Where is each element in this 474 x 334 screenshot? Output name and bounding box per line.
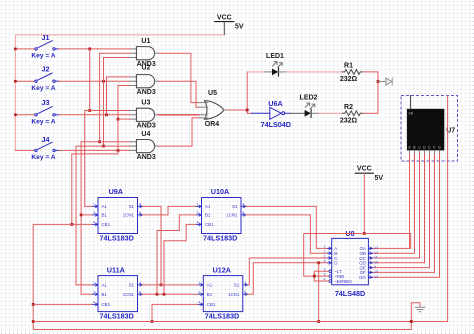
wire U1 output to OR input1 [158,53,199,102]
svg-text:Key = A: Key = A [31,118,55,125]
svg-text:S1: S1 [129,283,135,288]
wire LT BI tie [314,271,329,281]
LED1 [265,53,287,76]
wire U11A S1 to U12A A1 [142,284,198,286]
svg-text:74LS183D: 74LS183D [205,312,239,321]
svg-text:4: 4 [197,221,199,225]
svg-text:OG: OG [359,275,366,280]
svg-text:U12A: U12A [213,265,231,274]
adder U9A 74LS183D [93,187,143,242]
svg-text:4: 4 [244,281,246,285]
wire U4 input2 row / riser to U11A A1 [76,145,131,147]
svg-text:B1: B1 [102,292,108,297]
svg-text:VCC: VCC [217,14,232,21]
wire left bus to J2 [15,80,34,82]
wire U1 input2 feed [100,53,131,142]
svg-text:B1: B1 [207,292,213,297]
wire D net down to bus1 [318,263,320,322]
wire U7 pin B to U8 OB [414,150,416,153]
AND gate U2 AND3 [131,65,159,97]
svg-text:A1: A1 [102,283,108,288]
inverter U6A 74LS04D [252,99,291,129]
wire J3 row to U3 input2 [59,114,131,116]
wire U7 pin C to U8 OC [419,150,421,153]
wire U12A S1 to U8 C [247,258,327,285]
wire branch to U6A input [247,112,251,114]
wire ground bus1 [33,96,447,322]
svg-text:1CN1: 1CN1 [226,213,238,218]
wire bus J1 down to U3 input1 [89,49,91,111]
switch J2 Key = A [31,64,58,91]
svg-text:1CN1: 1CN1 [228,292,240,297]
svg-text:4: 4 [139,281,141,285]
svg-text:4: 4 [242,203,244,207]
svg-text:~BI/RBO: ~BI/RBO [334,279,352,284]
svg-text:AND3: AND3 [137,89,156,96]
svg-text:CB1: CB1 [102,302,111,307]
svg-text:4: 4 [93,221,95,225]
wire left bus to J1 [15,48,34,50]
svg-text:U5: U5 [208,90,217,97]
wire LED1 to R1 [286,71,342,73]
wire U10A S1 to U8 A [246,206,327,248]
wire U2 output to OR input2 [158,81,199,107]
svg-text:LED1: LED1 [266,53,284,60]
svg-text:Key = A: Key = A [31,53,55,60]
ground symbol [415,307,426,311]
svg-text:74LS183D: 74LS183D [100,234,134,243]
adder U11A 74LS183D [93,265,143,320]
wire ground bus2 to ground [33,303,420,330]
svg-text:U10A: U10A [211,187,229,196]
switch J1 Key = A [31,33,58,59]
svg-text:OR4: OR4 [205,121,220,128]
wire left bus to J3 [15,114,34,116]
wire pull-up to RBI [304,234,329,277]
wire U7 CA pin [410,96,412,109]
svg-text:232Ω: 232Ω [340,117,358,124]
svg-text:A1: A1 [205,204,211,209]
svg-text:CB1: CB1 [207,302,216,307]
AND gate U4 AND3 [131,131,159,161]
svg-text:R2: R2 [344,104,353,111]
svg-text:4: 4 [139,203,141,207]
adder U12A 74LS183D [198,265,248,320]
svg-text:1: 1 [197,203,199,207]
wire ground net to U9A CBI [33,224,92,329]
svg-text:9: 9 [374,265,376,269]
U7 display body [407,109,444,151]
svg-text:5: 5 [139,211,141,215]
svg-text:1CN1: 1CN1 [123,213,135,218]
svg-text:CB1: CB1 [102,222,111,227]
wire U2 input1 feed from J3 [107,77,131,115]
svg-text:J4: J4 [42,135,50,144]
wire U1 input3 feed from J2 down to U4 input2 [104,58,131,147]
svg-text:U4: U4 [141,131,150,138]
wire J1 row to U1 input1 [59,48,131,50]
wire J2 row to U2 input2 [59,80,131,82]
wire U7 pin F to U8 OF [434,150,436,153]
wire VCC2 down to pull-up net [363,173,365,233]
svg-text:B1: B1 [102,213,108,218]
svg-text:U11A: U11A [107,265,125,274]
svg-text:1: 1 [93,203,95,207]
wire J4 row to U4 input3 [59,149,131,151]
svg-text:3: 3 [93,211,95,215]
wire U9A S1 down to U12A A1 net [142,206,161,285]
svg-text:LED2: LED2 [300,95,318,102]
wire left bus to J4 [15,149,34,151]
wire riser to U10A B1 [157,215,196,294]
svg-text:AND3: AND3 [137,123,156,130]
svg-text:A1: A1 [102,204,108,209]
wire LED2 to R2 [319,112,342,114]
digital ground arrow symbol [378,78,392,85]
wire U7 pin E to U8 OE [429,150,431,153]
wire R1 to junction [363,72,378,113]
svg-text:F: F [434,146,436,150]
svg-text:74LS48D: 74LS48D [335,289,365,298]
svg-text:S1: S1 [129,204,135,209]
wire U11A 1CN1 to U12A B1 [142,293,198,295]
svg-text:U1: U1 [141,38,150,45]
svg-text:5V: 5V [235,24,244,31]
svg-text:Key = A: Key = A [31,85,55,92]
wire ground net to U11A CBI [33,303,92,305]
svg-text:4: 4 [93,301,95,305]
svg-text:U2: U2 [141,65,150,72]
junction left bus J1 [14,48,17,51]
junction left bus J2 [14,80,17,83]
svg-text:U9A: U9A [109,187,123,196]
wire riser to U10A CBI [164,224,196,294]
svg-text:E: E [428,146,430,150]
svg-text:14: 14 [374,275,378,279]
AND gate U3 AND3 [131,100,159,130]
wire U6A to LED2 [291,112,305,114]
wire U3 input1 row / riser to U9A A1 [85,110,131,112]
svg-text:4: 4 [198,301,200,305]
svg-text:J3: J3 [42,98,50,107]
IC U8 74LS48D [324,229,379,298]
adder U10A 74LS183D [196,187,246,242]
seven segment display U7 boundary [401,96,458,162]
svg-text:74LS183D: 74LS183D [203,234,237,243]
junction left bus J3 [14,114,17,117]
svg-text:VCC: VCC [357,166,372,173]
power VCC1 5V symbol [215,14,244,35]
svg-text:S1: S1 [232,204,238,209]
wire OR output to LED1/U6A branch [228,109,247,111]
wire branch vertical [246,72,248,113]
wire U9A 1CN1 to U10A A1 [142,206,196,215]
wire U12A 1CN1 to U8 D [247,263,327,294]
svg-text:10: 10 [374,260,378,264]
wire U7 pin A to U8 OA [409,150,411,153]
svg-text:B1: B1 [205,213,211,218]
wire U10A 1CN1 to U8 B [246,215,327,253]
svg-text:5: 5 [242,211,244,215]
switch J4 Key = A [31,135,58,161]
svg-text:11: 11 [374,256,378,260]
wire U4 output to OR input4 [158,118,199,146]
svg-text:Key = A: Key = A [31,154,55,161]
resistor R1 232ohm [340,63,363,83]
svg-text:1: 1 [93,281,95,285]
wire bus1 riser to U12A CBI [152,304,198,321]
wire pull-up right drop to OA net [410,234,412,249]
wire U2 input3 feed down to U3 input3 and J4 [72,86,131,225]
svg-text:U6A: U6A [268,99,282,108]
svg-text:CB1: CB1 [205,222,214,227]
svg-text:12: 12 [374,251,378,255]
svg-text:5V: 5V [375,175,384,182]
svg-text:U3: U3 [141,100,150,107]
svg-text:D: D [334,261,337,266]
svg-text:13: 13 [374,246,378,250]
svg-text:J1: J1 [42,33,50,42]
svg-text:3: 3 [197,211,199,215]
svg-text:J2: J2 [42,64,50,73]
resistor R2 232ohm [340,104,363,125]
wire U3 input3 row [118,118,131,120]
wire U3 output to OR input3 [158,114,199,116]
svg-text:S1: S1 [234,283,240,288]
wire R2 to junction vertical [363,112,378,114]
svg-text:A1: A1 [207,283,213,288]
svg-text:74LS04D: 74LS04D [261,120,291,129]
LED2 [300,95,319,118]
svg-text:R1: R1 [344,63,353,70]
svg-text:AND3: AND3 [137,154,156,161]
OR gate U5 OR4 [199,90,228,128]
wire to LED1 [247,71,264,73]
AND gate U1 AND3 [131,38,159,68]
svg-text:232Ω: 232Ω [340,76,358,83]
wire pull-up net horizontal [304,233,411,235]
svg-text:1: 1 [198,281,200,285]
svg-text:74LS183D: 74LS183D [100,312,134,321]
svg-text:3: 3 [198,290,200,294]
svg-text:1CN1: 1CN1 [123,292,135,297]
wire U7 pin D to U8 OD [424,150,426,153]
svg-text:B: B [413,146,415,150]
switch J3 Key = A [31,98,58,125]
svg-text:5: 5 [244,290,246,294]
wire U4 input1 row / riser to U9A B1 and U11A B1 [81,141,131,143]
power VCC2 5V symbol [355,166,383,183]
svg-text:3: 3 [93,290,95,294]
wire U7 pin G to U8 OG [439,150,441,153]
svg-text:5: 5 [139,290,141,294]
svg-text:15: 15 [374,270,378,274]
wire VCC1 trunk to switch bus [15,35,224,150]
